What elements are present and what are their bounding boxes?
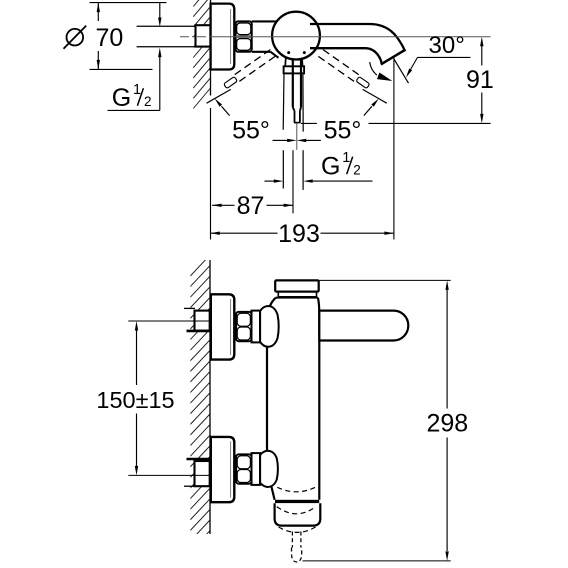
wall line (top view) — [210, 0, 212, 96]
lever neck and collar — [284, 58, 287, 67]
bottom union: pipe stub — [187, 458, 210, 461]
wall flange / rosette (top view) — [211, 4, 235, 70]
wall line (side view) — [209, 260, 211, 534]
55deg dimension arrows at lever — [273, 139, 289, 141]
30deg annotation — [394, 59, 409, 83]
dim 193 — [210, 232, 277, 234]
svg-text:150±15: 150±15 — [96, 387, 174, 413]
aerator tip (hidden/dashed) — [292, 532, 302, 563]
svg-text:G: G — [112, 84, 131, 112]
top union: ball joint — [260, 306, 279, 347]
svg-text:G: G — [321, 153, 340, 181]
outlet: mousseur cap — [275, 503, 321, 525]
right 55deg phantom lever (dashed) — [318, 50, 370, 90]
G1/2 outlet dimension — [265, 180, 275, 182]
svg-text:1: 1 — [133, 82, 141, 98]
svg-text:2: 2 — [144, 94, 152, 109]
svg-text:70: 70 — [96, 24, 124, 52]
bottom union: hex nut — [236, 454, 251, 483]
G1/2 wall nipple (top view) — [196, 25, 211, 46]
svg-text:87: 87 — [237, 192, 265, 220]
svg-text:2: 2 — [353, 162, 361, 177]
outlet: thick joint band — [275, 500, 319, 503]
top cap — [275, 280, 319, 291]
body column — [267, 298, 276, 453]
G1/2 top-left label with leader — [159, 3, 161, 18]
top union: flange — [211, 294, 235, 359]
svg-text:55°: 55° — [232, 116, 270, 144]
svg-text:1: 1 — [342, 150, 350, 166]
dim 150+-15 extension lines — [128, 320, 209, 322]
bottom union: ball joint — [260, 451, 278, 487]
supply pipe stub lines (top view) — [137, 25, 196, 27]
wall hatching (top view) — [193, 0, 210, 109]
swivel curved arrow — [370, 62, 377, 75]
faucet body cylinder (top view) — [252, 20, 285, 22]
dim 150+-15 — [136, 331, 138, 386]
svg-text:55°: 55° — [324, 117, 362, 145]
right 55deg leader — [363, 89, 387, 103]
diameter symbol — [67, 29, 84, 46]
hex nut (top view) — [236, 21, 252, 51]
spout (top view) — [310, 24, 405, 50]
svg-text:298: 298 — [426, 410, 468, 438]
cartridge dome circle — [272, 12, 320, 60]
dim 87 — [212, 204, 234, 206]
svg-text:91: 91 — [466, 66, 494, 94]
lever bar — [292, 59, 294, 108]
top union: hex nut — [236, 312, 251, 341]
left 55deg phantom lever (dashed) — [223, 50, 275, 90]
left 55deg leader — [207, 89, 231, 103]
top union: pipe stub — [184, 307, 195, 309]
wall hatching (side view) — [190, 255, 210, 562]
lever centerline — [296, 124, 298, 150]
svg-text:193: 193 — [278, 220, 320, 248]
G1/2 outlet extension lines — [282, 150, 284, 188]
dim 70: dimension lines and arrows — [90, 2, 167, 4]
outlet housing edges behind lever — [282, 73, 285, 129]
svg-text:30°: 30° — [429, 32, 465, 59]
lever arm (side view) — [319, 311, 408, 341]
dim 91 — [301, 122, 317, 124]
bottom union: collar — [252, 453, 261, 485]
dim 298 — [319, 279, 451, 281]
outlet: dashed thread arc — [277, 487, 315, 492]
main horizontal centerline / axis — [180, 36, 211, 38]
top union: collar — [252, 311, 261, 343]
bottom union: flange — [211, 437, 235, 502]
outlet centerline — [292, 150, 294, 213]
